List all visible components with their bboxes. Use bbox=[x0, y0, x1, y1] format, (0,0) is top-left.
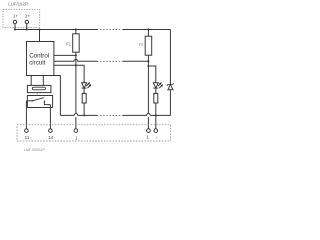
wire F2 vertical down to terminal (passes hop) bbox=[147, 66, 149, 114]
svg-text:LMF-5/0511P: LMF-5/0511P bbox=[24, 148, 46, 152]
wire K2 to LED2 branch bbox=[148, 66, 155, 83]
node R2 bus junction bbox=[155, 114, 157, 116]
resistor F1 bbox=[73, 34, 80, 52]
terminal 1 circle right bbox=[147, 129, 151, 133]
terminal 2+ bbox=[25, 20, 28, 23]
relay K1 coil box bbox=[27, 85, 51, 92]
wire top bus dashed middle bbox=[97, 29, 123, 31]
wire coil stub left bbox=[30, 76, 32, 86]
bottom dashed housing box bbox=[17, 125, 171, 141]
LED D1 arrows bbox=[86, 83, 90, 88]
contact lead right bbox=[44, 101, 50, 104]
svg-text:circuit: circuit bbox=[29, 60, 45, 67]
node on wire under 2+ bbox=[26, 29, 28, 31]
node control drop bbox=[39, 29, 41, 31]
wire R1 to bottom bus bbox=[83, 103, 85, 115]
wire terminal 11 bbox=[25, 101, 27, 129]
wire vertical through J1 to J2 bbox=[75, 55, 77, 65]
wire terminal 14 bbox=[49, 105, 51, 129]
LED D1 bbox=[82, 83, 87, 88]
wire mid bus dashed middle bbox=[97, 60, 123, 62]
wire stub from 2+ bbox=[26, 24, 28, 30]
terminal 2 circle right bbox=[154, 129, 158, 133]
zener diode Z1 bbox=[168, 84, 173, 89]
node K2 junction bbox=[147, 65, 149, 67]
wire F1 top stub bbox=[75, 30, 77, 34]
wire coil stub right bbox=[42, 76, 44, 86]
dashed box input module bbox=[3, 9, 40, 27]
wire stub3 control to J2 bbox=[54, 64, 76, 66]
wire J2 to LED1 branch bbox=[76, 65, 84, 83]
wire top bus solid right part bbox=[123, 29, 170, 31]
terminal 14 circle bbox=[49, 129, 53, 133]
wire LED2 to R2 bbox=[155, 88, 157, 93]
svg-text:1+: 1+ bbox=[13, 13, 19, 18]
resistor R2 bbox=[154, 93, 158, 103]
resistor R1 bbox=[82, 93, 86, 103]
wire R2 to bus bbox=[155, 103, 157, 115]
node K1 junction bbox=[147, 60, 149, 62]
terminal 11 circle bbox=[25, 129, 29, 133]
svg-text:14: 14 bbox=[48, 135, 54, 140]
LED D2 bbox=[153, 83, 158, 88]
wire R2 junction to terminal 2 bbox=[155, 115, 157, 128]
wire right edge vertical bottom bbox=[169, 90, 171, 116]
contact pivot dot bbox=[32, 100, 33, 101]
wire F1 bottom stub bbox=[75, 52, 77, 55]
contact blade bbox=[32, 98, 43, 101]
LED D2 arrows bbox=[158, 83, 162, 88]
bottom bus dashed middle bbox=[97, 114, 123, 116]
node F1 top bbox=[75, 29, 77, 31]
relay K1 contact box bbox=[27, 96, 52, 108]
wire stub from 1+ bbox=[14, 24, 16, 30]
wire right edge vertical top bbox=[169, 30, 171, 85]
contact dot right bbox=[44, 101, 45, 102]
op box control circuit U1 bbox=[27, 42, 54, 76]
terminal 1 circle left bbox=[74, 129, 78, 133]
svg-text:2+: 2+ bbox=[25, 13, 31, 18]
wire stub2 with hop over vertical bbox=[54, 59, 97, 61]
svg-text:F2: F2 bbox=[139, 43, 143, 47]
wire F2 bottom bbox=[147, 55, 149, 61]
node R1 bus junction bbox=[83, 114, 85, 116]
wire F2 top stub bbox=[147, 30, 149, 37]
node F2 top bbox=[147, 29, 149, 31]
svg-text:2: 2 bbox=[156, 136, 158, 140]
relay K1 coil bbox=[32, 87, 45, 90]
contact lead left bbox=[26, 100, 32, 102]
wire top bus solid left part bbox=[15, 29, 97, 31]
node J2 bbox=[75, 64, 77, 66]
svg-text:F1: F1 bbox=[66, 41, 72, 46]
terminal 1+ bbox=[13, 20, 16, 23]
node on wire under 1+ bbox=[14, 29, 16, 31]
bottom bus solid left with hop bbox=[60, 114, 97, 116]
wire mid bus solid right bbox=[123, 60, 148, 62]
wire drop to control circuit bbox=[39, 30, 41, 42]
bottom bus solid right with hop bbox=[123, 114, 170, 116]
svg-text:Control: Control bbox=[29, 52, 49, 59]
wire K1 to K2 bbox=[147, 61, 149, 66]
mechanical link dashes bbox=[36, 93, 38, 96]
svg-text:11: 11 bbox=[25, 135, 30, 140]
wire control box to bottom bus bbox=[54, 76, 60, 116]
resistor F2 bbox=[145, 36, 152, 55]
wire LED1 to R1 bbox=[83, 88, 85, 93]
svg-text:LUF/192P: LUF/192P bbox=[8, 2, 28, 7]
wire stub1 control to J1 bbox=[54, 54, 76, 56]
wire J2 down to terminal 1 (passes hop) bbox=[75, 65, 77, 113]
node J1 bbox=[75, 54, 77, 56]
